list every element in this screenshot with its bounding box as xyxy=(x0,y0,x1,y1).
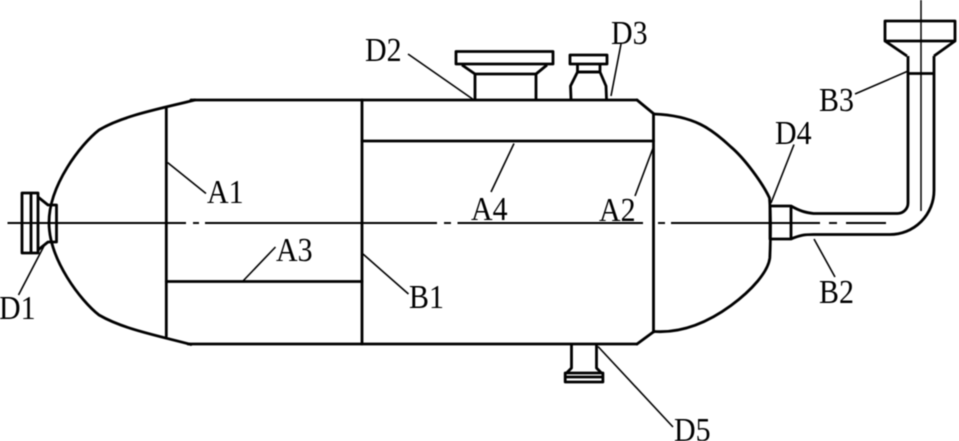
leader D4 xyxy=(771,145,794,204)
left head xyxy=(49,100,195,345)
manway D2 cover flange xyxy=(456,52,553,65)
nozzle D3 skirt right xyxy=(600,72,607,99)
nozzle D1 cone and neck xyxy=(38,197,57,250)
leader D2 xyxy=(408,54,474,100)
svg-text:D3: D3 xyxy=(611,13,648,51)
svg-text:D2: D2 xyxy=(365,30,402,68)
centerline xyxy=(8,222,887,224)
leader D5 xyxy=(598,347,673,428)
manway D2 cone xyxy=(462,65,547,74)
nozzle D1 xyxy=(22,193,57,253)
right tangent weld line A2 xyxy=(652,114,655,332)
svg-text:A1: A1 xyxy=(207,172,244,210)
manway D2 neck right xyxy=(535,74,538,99)
svg-text:A3: A3 xyxy=(276,230,313,268)
nozzle D3 xyxy=(570,55,607,99)
svg-text:B2: B2 xyxy=(819,272,854,310)
bottom right chamfer xyxy=(637,332,654,345)
funnel B3 xyxy=(885,21,955,41)
leader A1 xyxy=(168,163,207,194)
nozzle D3 flange xyxy=(570,55,607,64)
pipe B2 bottom edge xyxy=(791,235,890,240)
leader B2 xyxy=(814,239,835,277)
svg-text:D5: D5 xyxy=(674,410,711,441)
leader A4 xyxy=(491,144,514,193)
top right chamfer xyxy=(637,100,654,114)
manway D2 neck left xyxy=(474,74,477,99)
svg-text:B3: B3 xyxy=(819,80,854,118)
nozzle D3 upper neck xyxy=(578,64,601,72)
pipe B2 top edge xyxy=(791,206,898,214)
right head xyxy=(654,114,771,332)
leader A3 xyxy=(243,247,276,281)
nozzle D3 neck base line xyxy=(578,71,601,74)
shell bottom line xyxy=(188,343,637,346)
shell top line xyxy=(191,99,637,102)
left tangent weld line xyxy=(165,108,168,336)
nozzle D4 with pipe elbow xyxy=(770,21,955,239)
outer elbow xyxy=(890,56,934,235)
nozzle D5 flange xyxy=(565,373,603,382)
svg-text:D4: D4 xyxy=(775,113,812,151)
svg-text:A2: A2 xyxy=(599,190,636,228)
leader A2 xyxy=(635,146,654,197)
leader B3 xyxy=(855,72,907,95)
leader D3 xyxy=(611,44,621,96)
nozzle D3 skirt left xyxy=(571,72,578,99)
svg-text:D1: D1 xyxy=(0,288,36,326)
partition line B1 xyxy=(361,100,364,344)
manway D2 xyxy=(456,52,553,100)
svg-text:A4: A4 xyxy=(471,189,508,227)
inner elbow xyxy=(898,56,909,214)
internal line A3 xyxy=(166,280,362,283)
nozzle D5 flange face line xyxy=(565,376,603,379)
nozzle D4 neck xyxy=(770,206,791,239)
nozzle D1 flange xyxy=(22,193,38,253)
riser centerline xyxy=(920,0,922,211)
internal line A4 xyxy=(362,140,654,143)
drain nozzle D5 xyxy=(565,345,603,382)
leader D1 xyxy=(19,246,45,295)
svg-text:B1: B1 xyxy=(409,277,444,315)
nozzle D1 flange face line xyxy=(30,193,33,253)
leader B1 xyxy=(363,254,409,294)
nozzle D5 neck xyxy=(567,345,602,373)
pipe joint line xyxy=(908,72,934,75)
